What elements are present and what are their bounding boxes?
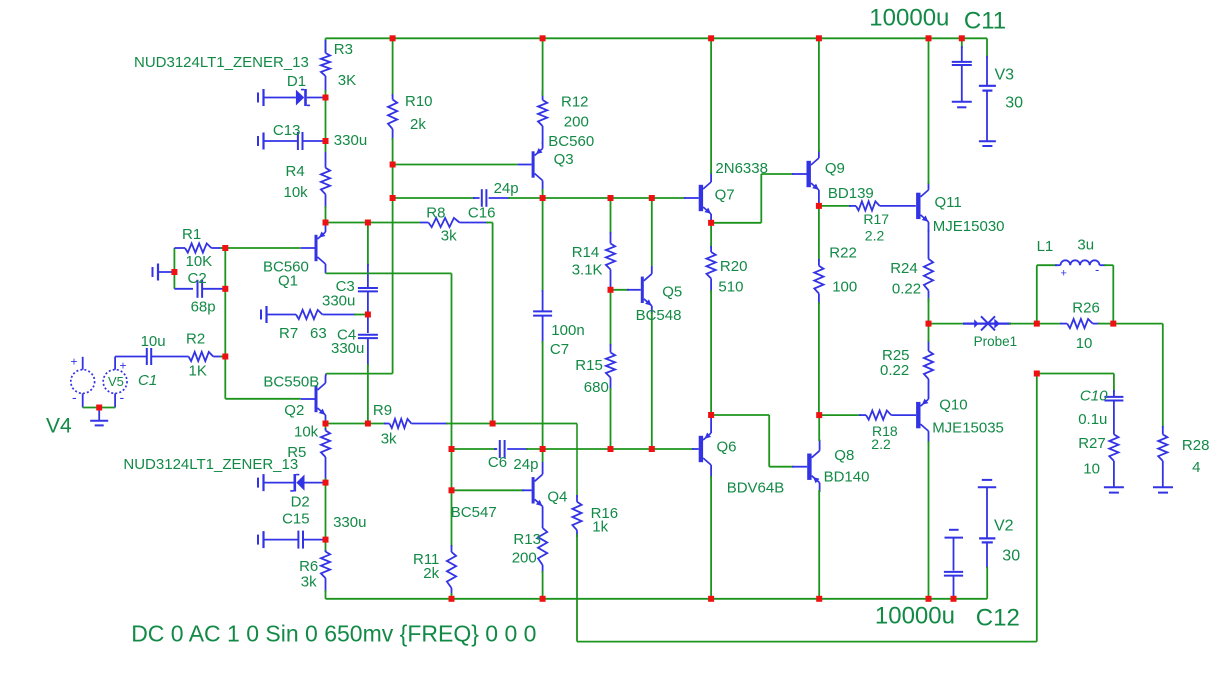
svg-text:330u: 330u: [334, 132, 367, 149]
svg-text:10000u: 10000u: [875, 602, 955, 629]
svg-text:+: +: [71, 354, 78, 368]
svg-text:10K: 10K: [186, 253, 213, 270]
svg-text:10k: 10k: [284, 184, 309, 201]
svg-text:1k: 1k: [592, 519, 608, 536]
svg-text:2N6338: 2N6338: [715, 160, 768, 177]
svg-text:4: 4: [1192, 459, 1200, 476]
svg-text:R1: R1: [182, 226, 201, 243]
svg-text:3k: 3k: [441, 227, 457, 244]
svg-text:C11: C11: [964, 8, 1006, 35]
svg-text:BD139: BD139: [828, 185, 874, 202]
svg-text:Q11: Q11: [935, 194, 962, 211]
svg-text:Q1: Q1: [278, 272, 298, 289]
svg-text:R2: R2: [186, 330, 205, 347]
svg-text:C12: C12: [976, 605, 1020, 632]
svg-text:C7: C7: [550, 341, 569, 358]
svg-text:+: +: [1061, 267, 1067, 279]
svg-text:Q8: Q8: [834, 447, 854, 464]
svg-text:3K: 3K: [338, 72, 356, 89]
svg-text:30: 30: [1005, 95, 1023, 112]
svg-text:R22: R22: [829, 244, 857, 261]
svg-text:30: 30: [1002, 548, 1020, 565]
svg-text:R7: R7: [279, 325, 298, 342]
svg-text:C6: C6: [488, 454, 507, 471]
svg-text:2k: 2k: [423, 565, 439, 582]
svg-text:100: 100: [832, 278, 857, 295]
svg-text:200: 200: [512, 550, 537, 567]
svg-text:V4: V4: [46, 414, 72, 437]
svg-text:+: +: [120, 358, 127, 372]
svg-text:200: 200: [564, 114, 589, 131]
svg-text:10u: 10u: [141, 333, 166, 350]
svg-text:Q9: Q9: [825, 160, 845, 177]
svg-text:BC560: BC560: [548, 133, 594, 150]
svg-text:24p: 24p: [513, 456, 538, 473]
svg-text:3u: 3u: [1077, 236, 1094, 253]
svg-text:V2: V2: [994, 518, 1014, 535]
svg-text:R24: R24: [890, 260, 918, 277]
svg-text:2.2: 2.2: [865, 227, 885, 243]
svg-text:2k: 2k: [410, 116, 426, 133]
svg-text:R9: R9: [373, 402, 392, 419]
svg-text:68p: 68p: [191, 299, 216, 316]
svg-text:10: 10: [1083, 461, 1100, 478]
svg-text:R26: R26: [1072, 299, 1100, 316]
svg-text:Q4: Q4: [547, 488, 567, 505]
svg-text:C10: C10: [1080, 387, 1108, 404]
svg-text:3k: 3k: [301, 573, 317, 590]
svg-text:R4: R4: [286, 163, 305, 180]
svg-text:R13: R13: [513, 531, 541, 548]
svg-text:0.22: 0.22: [880, 362, 909, 379]
svg-text:0.22: 0.22: [892, 281, 921, 298]
svg-text:NUD3124LT1_ZENER_13: NUD3124LT1_ZENER_13: [123, 456, 298, 473]
svg-text:Probe1: Probe1: [974, 334, 1018, 349]
svg-text:BC547: BC547: [451, 504, 497, 521]
svg-text:C1: C1: [138, 372, 157, 389]
svg-text:MJE15030: MJE15030: [933, 218, 1005, 235]
svg-text:L1: L1: [1037, 238, 1054, 255]
svg-text:BDV64B: BDV64B: [727, 479, 785, 496]
svg-text:D1: D1: [287, 73, 306, 90]
svg-text:Q3: Q3: [554, 151, 574, 168]
svg-text:100n: 100n: [551, 322, 584, 339]
svg-text:C15: C15: [282, 510, 310, 527]
svg-text:330u: 330u: [333, 514, 366, 531]
svg-text:Q7: Q7: [715, 187, 735, 204]
svg-text:680: 680: [584, 379, 609, 396]
svg-text:10000u: 10000u: [869, 5, 949, 32]
svg-text:R8: R8: [426, 204, 445, 221]
svg-text:Q6: Q6: [717, 439, 737, 456]
svg-text:3k: 3k: [381, 430, 397, 447]
svg-text:V3: V3: [995, 67, 1015, 84]
svg-text:1K: 1K: [189, 362, 207, 379]
svg-text:R17: R17: [863, 211, 889, 227]
svg-text:R27: R27: [1078, 435, 1106, 452]
svg-text:BD140: BD140: [824, 468, 870, 485]
svg-text:R10: R10: [405, 93, 433, 110]
svg-text:330u: 330u: [322, 293, 355, 310]
svg-text:2.2: 2.2: [871, 436, 891, 452]
svg-text:R14: R14: [572, 244, 600, 261]
svg-text:C2: C2: [188, 270, 207, 287]
svg-text:10: 10: [1076, 335, 1093, 352]
svg-text:D2: D2: [291, 493, 310, 510]
svg-text:BC550B: BC550B: [263, 373, 319, 390]
svg-text:Q10: Q10: [939, 397, 967, 414]
svg-text:R20: R20: [720, 258, 748, 275]
svg-text:DC 0 AC 1 0 Sin 0 650mv {FREQ}: DC 0 AC 1 0 Sin 0 650mv {FREQ} 0 0 0: [131, 620, 536, 646]
svg-text:-: -: [1095, 262, 1099, 277]
svg-text:510: 510: [718, 278, 743, 295]
svg-text:Q5: Q5: [662, 283, 682, 300]
svg-text:BC548: BC548: [636, 307, 682, 324]
svg-text:NUD3124LT1_ZENER_13: NUD3124LT1_ZENER_13: [134, 54, 309, 71]
svg-text:R15: R15: [575, 357, 603, 374]
svg-text:-: -: [72, 389, 77, 405]
svg-text:R28: R28: [1182, 437, 1210, 454]
svg-text:R12: R12: [561, 94, 589, 111]
svg-text:C16: C16: [468, 204, 496, 221]
svg-text:R3: R3: [334, 41, 353, 58]
svg-text:C13: C13: [273, 122, 301, 139]
svg-text:63: 63: [310, 325, 327, 342]
svg-text:0.1u: 0.1u: [1078, 411, 1107, 428]
svg-text:10k: 10k: [294, 424, 319, 441]
svg-text:Q2: Q2: [284, 402, 304, 419]
svg-text:24p: 24p: [494, 180, 519, 197]
svg-text:-: -: [120, 389, 125, 405]
svg-text:V5: V5: [108, 374, 124, 389]
svg-text:3.1K: 3.1K: [572, 262, 603, 279]
svg-text:330u: 330u: [331, 340, 364, 357]
svg-text:MJE15035: MJE15035: [932, 419, 1004, 436]
